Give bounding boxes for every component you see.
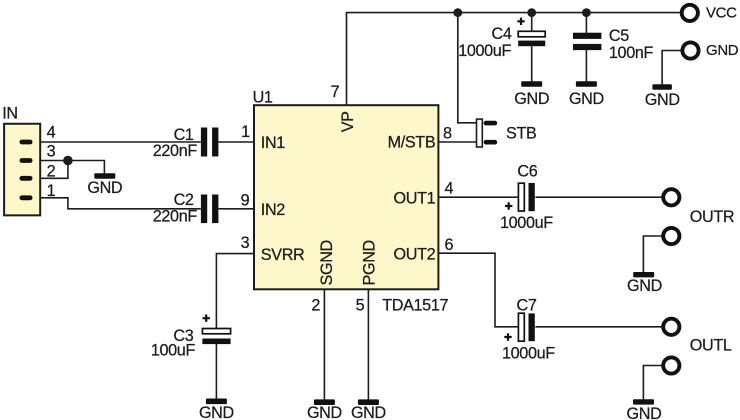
svg-text:1000uF: 1000uF [502,345,555,363]
svg-text:GND: GND [645,91,680,109]
svg-text:GND: GND [627,405,662,420]
svg-text:PGND: PGND [361,240,379,285]
svg-text:SGND: SGND [318,240,336,285]
svg-text:IN1: IN1 [261,134,285,152]
svg-text:9: 9 [241,191,250,209]
svg-text:OUTL: OUTL [690,337,732,355]
svg-text:GND: GND [569,90,604,108]
svg-text:GND: GND [514,90,549,108]
svg-text:220nF: 220nF [153,208,198,226]
svg-text:1: 1 [241,123,250,141]
svg-text:SVRR: SVRR [261,246,305,264]
svg-text:IN2: IN2 [261,201,285,219]
svg-text:1: 1 [47,182,56,200]
svg-text:C4: C4 [492,25,512,43]
svg-text:1000uF: 1000uF [458,42,511,60]
svg-text:6: 6 [444,236,453,254]
svg-text:GND: GND [351,404,386,420]
svg-text:C7: C7 [517,297,537,315]
svg-text:4: 4 [444,180,453,198]
svg-text:GND: GND [627,277,662,295]
svg-text:C5: C5 [609,27,629,45]
svg-text:7: 7 [331,83,340,101]
svg-text:STB: STB [506,124,536,142]
svg-text:OUT2: OUT2 [394,245,436,263]
svg-text:M/STB: M/STB [388,134,436,152]
svg-text:GND: GND [199,404,234,420]
svg-text:VCC: VCC [706,4,737,21]
svg-text:3: 3 [47,142,56,160]
svg-text:2: 2 [47,163,56,181]
svg-text:1000uF: 1000uF [500,214,553,232]
svg-text:C6: C6 [517,163,537,181]
svg-text:GND: GND [307,404,342,420]
svg-text:OUT1: OUT1 [394,189,436,207]
svg-text:100uF: 100uF [151,342,196,360]
svg-text:GND: GND [87,179,122,197]
svg-text:OUTR: OUTR [690,208,734,226]
svg-text:VP: VP [339,111,357,132]
svg-text:100nF: 100nF [609,44,654,62]
svg-text:2: 2 [311,297,320,315]
svg-text:4: 4 [47,124,56,142]
svg-text:C2: C2 [174,191,194,209]
svg-text:5: 5 [356,297,365,315]
svg-text:TDA1517: TDA1517 [382,297,448,315]
svg-text:U1: U1 [253,88,273,106]
svg-text:8: 8 [443,124,452,142]
svg-text:IN: IN [2,104,18,122]
svg-text:GND: GND [706,42,739,59]
svg-text:3: 3 [241,234,250,252]
svg-text:220nF: 220nF [153,142,198,160]
